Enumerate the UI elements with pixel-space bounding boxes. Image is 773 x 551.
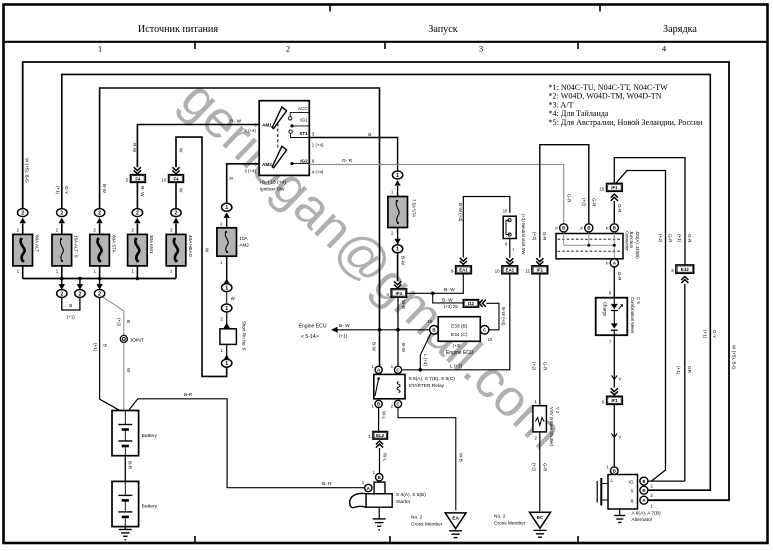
- svg-text:L: L: [611, 478, 614, 483]
- svg-text:(+2): (+2): [532, 232, 537, 241]
- wire B-R between batteries: [125, 456, 132, 482]
- svg-text:V: V: [618, 376, 621, 381]
- svg-text:15: 15: [599, 186, 605, 191]
- wire V IF1 6 to alternator L: [611, 404, 621, 466]
- svg-text:E33 (B): E33 (B): [451, 323, 468, 329]
- svg-text:10: 10: [503, 208, 508, 213]
- svg-text:W (+5), B-G: W (+5), B-G: [25, 158, 30, 183]
- connector 9 EA1: [451, 258, 472, 274]
- svg-text:Cross Member: Cross Member: [411, 522, 443, 528]
- wire L (+3) branch to ECU B: [420, 333, 431, 370]
- svg-text:(+1): (+1): [677, 234, 682, 243]
- svg-text:(+2): (+2): [532, 463, 537, 472]
- svg-text:F: F: [580, 226, 583, 231]
- fusible link 40A HEAD: [166, 224, 193, 279]
- ignition switch box: [259, 101, 309, 176]
- wire G-R (+2) junction B2 to 11 IF1: [532, 145, 596, 258]
- wire W from F4 pin10 loop: [176, 137, 227, 376]
- svg-text:A 6(A), A 7(B): A 6(A), A 7(B): [632, 510, 661, 516]
- svg-text:G-R: G-R: [542, 463, 547, 472]
- svg-text:AM2: AM2: [262, 162, 272, 167]
- wire B-W junction to I12: [433, 293, 464, 303]
- wire G-R VSV to ground EC: [532, 432, 548, 511]
- connector 3 EJ2: [671, 265, 694, 283]
- combination meter box: [596, 298, 628, 336]
- starter relay terminal B: [371, 400, 382, 408]
- svg-text:G-R: G-R: [687, 234, 692, 243]
- svg-text:1: 1: [396, 247, 399, 253]
- svg-text:1: 1: [225, 361, 228, 367]
- junction connector terminal B3: [606, 224, 618, 232]
- svg-text:1 (+4): 1 (+4): [312, 143, 324, 148]
- svg-text:R- W: R- W: [140, 186, 145, 197]
- svg-text:*1: N04C-TU, N04C-TT, N04C-TW: *1: N04C-TU, N04C-TT, N04C-TW: [549, 83, 669, 92]
- JOINT node: [120, 335, 143, 343]
- svg-text:G-R: G-R: [591, 198, 596, 207]
- wire B (+2) to JOINT: [103, 297, 131, 336]
- wire label B-W fuse 3: [102, 184, 107, 194]
- wire G-R junction A to meter: [609, 267, 622, 298]
- engine ECU circle C pin 10: [480, 326, 493, 342]
- bus drop to circle 3: [94, 279, 104, 298]
- svg-text:Зарядка: Зарядка: [663, 24, 697, 35]
- svg-text:C 6: C 6: [636, 297, 641, 304]
- header band tick marks: [195, 42, 578, 49]
- svg-text:9: 9: [451, 268, 454, 273]
- svg-text:Ignition SW: Ignition SW: [260, 187, 285, 193]
- wire G-R 11 IF1 to VSV: [532, 274, 548, 406]
- alternator name: [632, 510, 661, 522]
- svg-text:B: B: [69, 303, 72, 308]
- svg-text:Cross Member: Cross Member: [494, 521, 526, 527]
- svg-text:GR: GR: [687, 366, 692, 374]
- wire IG horizontal: [648, 480, 685, 482]
- svg-text:G-Y: G-Y: [64, 186, 69, 194]
- svg-text:B: B: [630, 499, 633, 504]
- svg-text:B: B: [126, 320, 131, 323]
- short pin No.5: [220, 312, 247, 353]
- connector circle 1 below short pin: [222, 344, 232, 367]
- svg-text:W: W: [126, 368, 131, 373]
- svg-text:2: 2: [175, 211, 178, 217]
- svg-text:(+1): (+1): [339, 333, 348, 338]
- connector circle 2 above 40A HEAD: [171, 209, 181, 224]
- svg-text:2: 2: [21, 211, 24, 217]
- svg-text:B-W: B-W: [401, 343, 406, 353]
- svg-text:W: W: [178, 148, 183, 153]
- battery 1: [112, 411, 158, 456]
- bottom border tick marks: [195, 536, 578, 543]
- svg-text:B: B: [562, 226, 565, 231]
- svg-text:EA1: EA1: [459, 268, 468, 273]
- svg-text:R-W: R-W: [132, 143, 137, 153]
- wire V meter to IF1 6: [609, 335, 622, 387]
- svg-text:Источник питания: Источник питания: [138, 24, 218, 35]
- svg-text:(+3): (+3): [453, 343, 461, 348]
- svg-text:4: 4: [386, 292, 389, 297]
- svg-text:IG1: IG1: [300, 117, 308, 122]
- fuse 7.5A STA: [388, 186, 417, 236]
- svg-text:3 (+4): 3 (+4): [244, 169, 256, 174]
- label B-W relay A wire: [371, 342, 376, 352]
- svg-text:F: F: [606, 226, 609, 231]
- svg-text:29: 29: [453, 304, 458, 309]
- wire B-W from IF4 to EA1 9: [407, 274, 464, 295]
- svg-text:V 2: V 2: [555, 407, 560, 414]
- svg-text:W-B: W-B: [401, 300, 406, 309]
- svg-text:2: 2: [78, 291, 81, 297]
- connector 11 IF1: [525, 258, 548, 274]
- svg-text:L (+3): L (+3): [450, 364, 463, 369]
- svg-text:*4: Для Тайланда: *4: Для Тайланда: [549, 109, 609, 118]
- wire L (+3) EA1 10 to starter relay C: [402, 274, 510, 372]
- svg-text:3: 3: [671, 268, 674, 273]
- svg-text:B: B: [377, 402, 380, 407]
- svg-text:W-L: W-L: [381, 411, 386, 420]
- wire W-L EL2 to starter B: [380, 448, 388, 473]
- junction dots on B-W (+1) wire: [378, 328, 400, 332]
- title Зарядка: [663, 24, 697, 35]
- svg-text:G-R: G-R: [617, 272, 622, 281]
- svg-text:G-R: G-R: [617, 204, 622, 213]
- svg-text:1: 1: [225, 306, 228, 312]
- wire B-W (+3) loop EA1 to neutral start SW: [458, 197, 510, 258]
- ignition switch internals: [262, 106, 309, 168]
- starter relay terminal C1: [391, 364, 402, 374]
- svg-text:Engine ECU: Engine ECU: [299, 323, 327, 329]
- svg-text:B: B: [613, 469, 616, 474]
- label W on loop: [205, 248, 210, 253]
- wire B from ST1 to 7.5A STA: [309, 131, 397, 171]
- junction connector name: [624, 231, 640, 259]
- svg-text:(+1): (+1): [93, 343, 98, 352]
- wire G-R (+2) IF1 to alternator IG: [616, 171, 673, 482]
- label W above F4 pin10: [178, 148, 183, 153]
- ground EC name: [494, 514, 526, 527]
- connector circle 1 above short pin: [222, 292, 232, 312]
- svg-text:*2: W04D, W04D-TM, W04D-TN: *2: W04D, W04D-TM, W04D-TN: [549, 92, 662, 101]
- junction connector terminal B1: [555, 224, 567, 232]
- svg-text:4 (+4): 4 (+4): [312, 170, 324, 175]
- wire AM2 to fuse 10A AM2: [227, 164, 260, 204]
- svg-text:B-R: B-R: [184, 392, 193, 398]
- svg-text:1: 1: [396, 173, 399, 179]
- svg-text:< 5-14>: < 5-14>: [301, 334, 319, 340]
- svg-text:B: B: [587, 226, 590, 231]
- svg-text:7.5A STA: 7.5A STA: [412, 199, 417, 217]
- title Запуск: [428, 24, 458, 35]
- svg-text:EC: EC: [537, 515, 544, 521]
- svg-text:B-W (+3): B-W (+3): [501, 307, 506, 326]
- svg-text:G-R: G-R: [542, 362, 547, 371]
- neutral start SW: [503, 208, 526, 255]
- connector circle 2 above 80A STA: [94, 209, 104, 224]
- svg-text:EA: EA: [452, 516, 459, 522]
- engine ECU box: [438, 317, 480, 357]
- svg-text:S: S: [630, 489, 633, 494]
- alternator pulley: [597, 478, 608, 506]
- connector 10 EA1: [495, 266, 518, 274]
- svg-text:No. 2: No. 2: [494, 514, 506, 520]
- starter motor: [350, 482, 427, 508]
- svg-text:80A STA: 80A STA: [111, 235, 116, 254]
- svg-text:I12: I12: [468, 301, 475, 306]
- svg-text:F: F: [606, 261, 609, 266]
- svg-text:1: 1: [225, 205, 228, 211]
- alternator terminal L: [607, 465, 619, 475]
- pin 9 AM1: [254, 122, 257, 127]
- svg-text:G-R: G-R: [542, 232, 547, 241]
- fusible link 30A AM1: [128, 224, 155, 279]
- connector circle 2 above 15A ALT- S: [57, 209, 67, 224]
- svg-text:B- W: B- W: [444, 287, 455, 293]
- watermark gerilogan@gmail.com: [170, 70, 574, 460]
- svg-text:B: B: [378, 475, 381, 480]
- svg-text:B-W: B-W: [400, 256, 405, 266]
- connector circle 2 above 30A AM1: [132, 209, 142, 224]
- wire W-B from IF4 to relay C: [398, 297, 406, 366]
- connector circle 1 above 10A AM2: [220, 203, 232, 226]
- engine ECU circle B pin 19: [427, 319, 438, 334]
- wire GR (+1) EJ2 to alternator IG: [676, 284, 692, 481]
- alternator terminal B: [640, 496, 654, 508]
- svg-text:G-R: G-R: [668, 234, 673, 243]
- svg-text:W-B: W-B: [458, 453, 463, 462]
- battery ground: [119, 527, 132, 540]
- wire neutral start SW to EA1 10: [506, 239, 513, 265]
- svg-text:10A: 10A: [239, 236, 248, 241]
- svg-text:S 6(A), S 7(B), S 8(C): S 6(A), S 7(B), S 8(C): [409, 376, 456, 382]
- svg-text:L (+3): L (+3): [423, 354, 428, 366]
- svg-text:(+1): (+1): [55, 186, 60, 195]
- connector circle 2 above 80A ALT: [18, 209, 28, 224]
- connector circle 1 below 7.5A STA: [392, 228, 402, 253]
- svg-text:40A HEAD: 40A HEAD: [188, 235, 193, 258]
- wire W (+5) B-G loop (fuse 80A ALT to alternator B): [23, 62, 729, 500]
- svg-text:(+1): (+1): [67, 315, 75, 320]
- svg-text:B-R: B-R: [128, 461, 133, 470]
- fuse bus wire: [23, 277, 176, 281]
- connector 29 I12: [442, 298, 486, 310]
- variant notes *1-*5: [549, 83, 704, 127]
- alternator terminal S: [640, 486, 654, 498]
- wire B-W (+3) ECU C to I12: [486, 303, 506, 330]
- svg-text:Combination Meter: Combination Meter: [630, 297, 635, 334]
- column number 1: [98, 44, 102, 54]
- svg-text:E34 (C): E34 (C): [451, 332, 468, 338]
- svg-text:2: 2: [60, 291, 63, 297]
- svg-text:2: 2: [286, 44, 290, 54]
- svg-text:(+3) Neutral start SW: (+3) Neutral start SW: [521, 214, 526, 255]
- alternator box: [608, 475, 638, 510]
- svg-text:Запуск: Запуск: [428, 24, 458, 35]
- junction connector terminal A: [606, 259, 618, 267]
- svg-text:3: 3: [479, 44, 483, 54]
- svg-text:I 6, I 15 (+4): I 6, I 15 (+4): [260, 180, 287, 186]
- svg-text:B- R: B- R: [322, 481, 332, 487]
- connector 10 F4: [161, 160, 183, 209]
- connector circle 1 above 7.5A STA: [391, 171, 403, 195]
- wire B-W loop (fuse 80A STA to starter relay A): [100, 88, 380, 366]
- svg-text:IF1: IF1: [537, 268, 544, 273]
- svg-text:JOINT: JOINT: [130, 337, 144, 343]
- wire label W fuse 5: [178, 188, 183, 193]
- label G-Y (+1) right side: [703, 330, 717, 339]
- connector 6 IF1: [602, 388, 623, 404]
- svg-text:ST1: ST1: [299, 131, 308, 136]
- svg-text:6: 6: [602, 399, 605, 404]
- svg-text:G- R: G- R: [342, 158, 353, 164]
- svg-text:G-Y: G-Y: [712, 330, 717, 338]
- svg-text:R- W: R- W: [230, 118, 241, 124]
- svg-text:(+2): (+2): [117, 318, 122, 327]
- jumper wire B (+1): [62, 298, 80, 320]
- svg-text:4: 4: [662, 44, 667, 54]
- svg-text:B-W (+3): B-W (+3): [458, 203, 463, 222]
- ground EC triangle: [529, 512, 550, 537]
- svg-text:2: 2: [98, 291, 101, 297]
- label R-W ignition AM1: [230, 118, 256, 133]
- junction connector J20 J40 box: [556, 232, 623, 259]
- svg-text:B: B: [642, 488, 645, 493]
- svg-text:B: B: [368, 132, 371, 138]
- wire label G-Y (+1): [55, 186, 69, 195]
- VSV intake shutter: [533, 406, 560, 447]
- charge warning LED 1: [611, 298, 623, 311]
- svg-text:F: F: [555, 226, 558, 231]
- ignition switch name: [260, 180, 287, 193]
- svg-text:Short Pin No. 5: Short Pin No. 5: [242, 321, 247, 351]
- svg-text:Connector: Connector: [624, 231, 629, 251]
- svg-text:F4: F4: [135, 176, 141, 181]
- svg-text:IG2: IG2: [300, 158, 308, 163]
- svg-text:Alternator: Alternator: [632, 517, 653, 523]
- wire W JOINT to battery: [124, 342, 131, 410]
- label W (+5) B-G right side: [732, 345, 737, 370]
- svg-text:10: 10: [495, 268, 501, 273]
- svg-text:F4: F4: [173, 176, 179, 181]
- svg-text:5 (+4): 5 (+4): [244, 128, 256, 133]
- bus drop to circle 1: [57, 279, 67, 298]
- svg-text:IF1: IF1: [611, 185, 618, 190]
- svg-text:IG: IG: [629, 479, 634, 484]
- svg-text:5: 5: [126, 178, 129, 183]
- svg-text:B-W: B-W: [371, 342, 376, 352]
- svg-text:(+2): (+2): [581, 198, 586, 207]
- svg-text:Battery: Battery: [142, 504, 158, 510]
- svg-text:Battery: Battery: [142, 433, 158, 439]
- svg-text:(+2): (+2): [658, 234, 663, 243]
- svg-text:EJ2: EJ2: [681, 267, 689, 272]
- svg-text:(+3): (+3): [444, 304, 452, 309]
- connector 5 F4: [126, 160, 146, 209]
- svg-text:(+2): (+2): [532, 362, 537, 371]
- svg-text:1: 1: [98, 44, 102, 54]
- wire G-Y (+1) loop (fuse 15A ALT-S to alternator S): [62, 74, 711, 490]
- label R-W above F4 pin5: [132, 143, 137, 153]
- svg-text:Starter: Starter: [396, 499, 411, 505]
- connector circle 1 below 10A AM2: [222, 256, 232, 291]
- wire G-R (+1) IF1 to EJ2: [614, 158, 685, 265]
- connector 15 IF1: [599, 183, 622, 191]
- bus drop to circle 2: [75, 279, 85, 298]
- svg-text:80A ALT: 80A ALT: [35, 235, 40, 252]
- svg-text:Charge: Charge: [602, 302, 607, 317]
- svg-text:2: 2: [136, 211, 139, 217]
- wire G-R IG2 to junction connector B1: [309, 158, 571, 224]
- svg-text:No. 2: No. 2: [411, 515, 423, 521]
- off-page arrow Engine ECU 5-14: [299, 323, 430, 340]
- svg-text:AM2: AM2: [239, 243, 249, 248]
- svg-text:W (+5), B-G: W (+5), B-G: [732, 345, 737, 370]
- svg-text:1: 1: [225, 286, 228, 292]
- svg-text:V: V: [618, 434, 621, 439]
- wire B-W to IF4: [394, 253, 405, 288]
- title Источник питания: [138, 24, 218, 35]
- svg-text:1: 1: [368, 434, 371, 439]
- connector 4 IF4: [386, 289, 406, 297]
- svg-text:2: 2: [60, 211, 63, 217]
- starter terminal B: [373, 470, 383, 481]
- svg-text:AM1: AM1: [262, 122, 272, 127]
- wire B (+1) circle3 to battery: [93, 298, 119, 411]
- svg-text:J20(A), J40(B): J20(A), J40(B): [635, 231, 640, 259]
- charge warning LED 2: [611, 311, 618, 336]
- svg-text:39: 39: [229, 176, 234, 181]
- junction connector terminal B2: [580, 224, 592, 232]
- svg-text:VSV (Intake Shutter): VSV (Intake Shutter): [549, 407, 554, 447]
- svg-text:G-R: G-R: [566, 194, 571, 203]
- column number 4: [662, 44, 667, 54]
- wire R-W from F4 pin5 to ignition AM1: [137, 125, 259, 161]
- svg-text:W-L: W-L: [382, 453, 387, 462]
- fusible link 15A ALT- S: [52, 224, 79, 279]
- svg-text:B: B: [432, 328, 435, 333]
- starter relay box: [374, 374, 405, 398]
- svg-text:*5: Для Австралии, Новой Зелан: *5: Для Австралии, Новой Зеландии, Росси…: [549, 118, 704, 127]
- battery 2: [112, 481, 158, 526]
- svg-text:IF4: IF4: [396, 291, 403, 296]
- svg-text:B-W: B-W: [102, 184, 107, 194]
- svg-text:(+1): (+1): [676, 366, 681, 375]
- label W between circles: [231, 296, 236, 301]
- wire label W (+5), B-G: [25, 158, 30, 183]
- svg-text:B: B: [642, 479, 645, 484]
- wire G-R junction B3 to 15 IF1: [611, 194, 622, 224]
- svg-text:10: 10: [488, 337, 493, 342]
- wire W-L relay B to EL2: [379, 408, 387, 432]
- svg-text:EA1: EA1: [506, 268, 515, 273]
- svg-text:10: 10: [161, 178, 167, 183]
- wire B-R battery to starter: [129, 392, 365, 488]
- svg-text:2: 2: [98, 211, 101, 217]
- combination meter name: [630, 297, 641, 334]
- label G-R (+1) EJ2 wire: [677, 234, 692, 243]
- svg-text:Engine ECU: Engine ECU: [446, 350, 474, 356]
- svg-text:19: 19: [427, 319, 432, 324]
- svg-text:30A AM1: 30A AM1: [149, 235, 154, 254]
- connector 1 EL2: [368, 432, 387, 448]
- svg-text:B: B: [613, 226, 616, 231]
- ground EA name: [411, 515, 443, 528]
- fuse 10A AM2: [217, 218, 249, 265]
- svg-text:S 4(A), S 5(B): S 4(A), S 5(B): [396, 492, 426, 498]
- label 3 (+4) ignition AM2: [244, 169, 256, 174]
- top border tick marks: [330, 5, 600, 12]
- svg-text:15A ALT- S: 15A ALT- S: [74, 235, 79, 258]
- wire label R-W fuse 4: [140, 186, 145, 197]
- alternator ground: [614, 509, 625, 523]
